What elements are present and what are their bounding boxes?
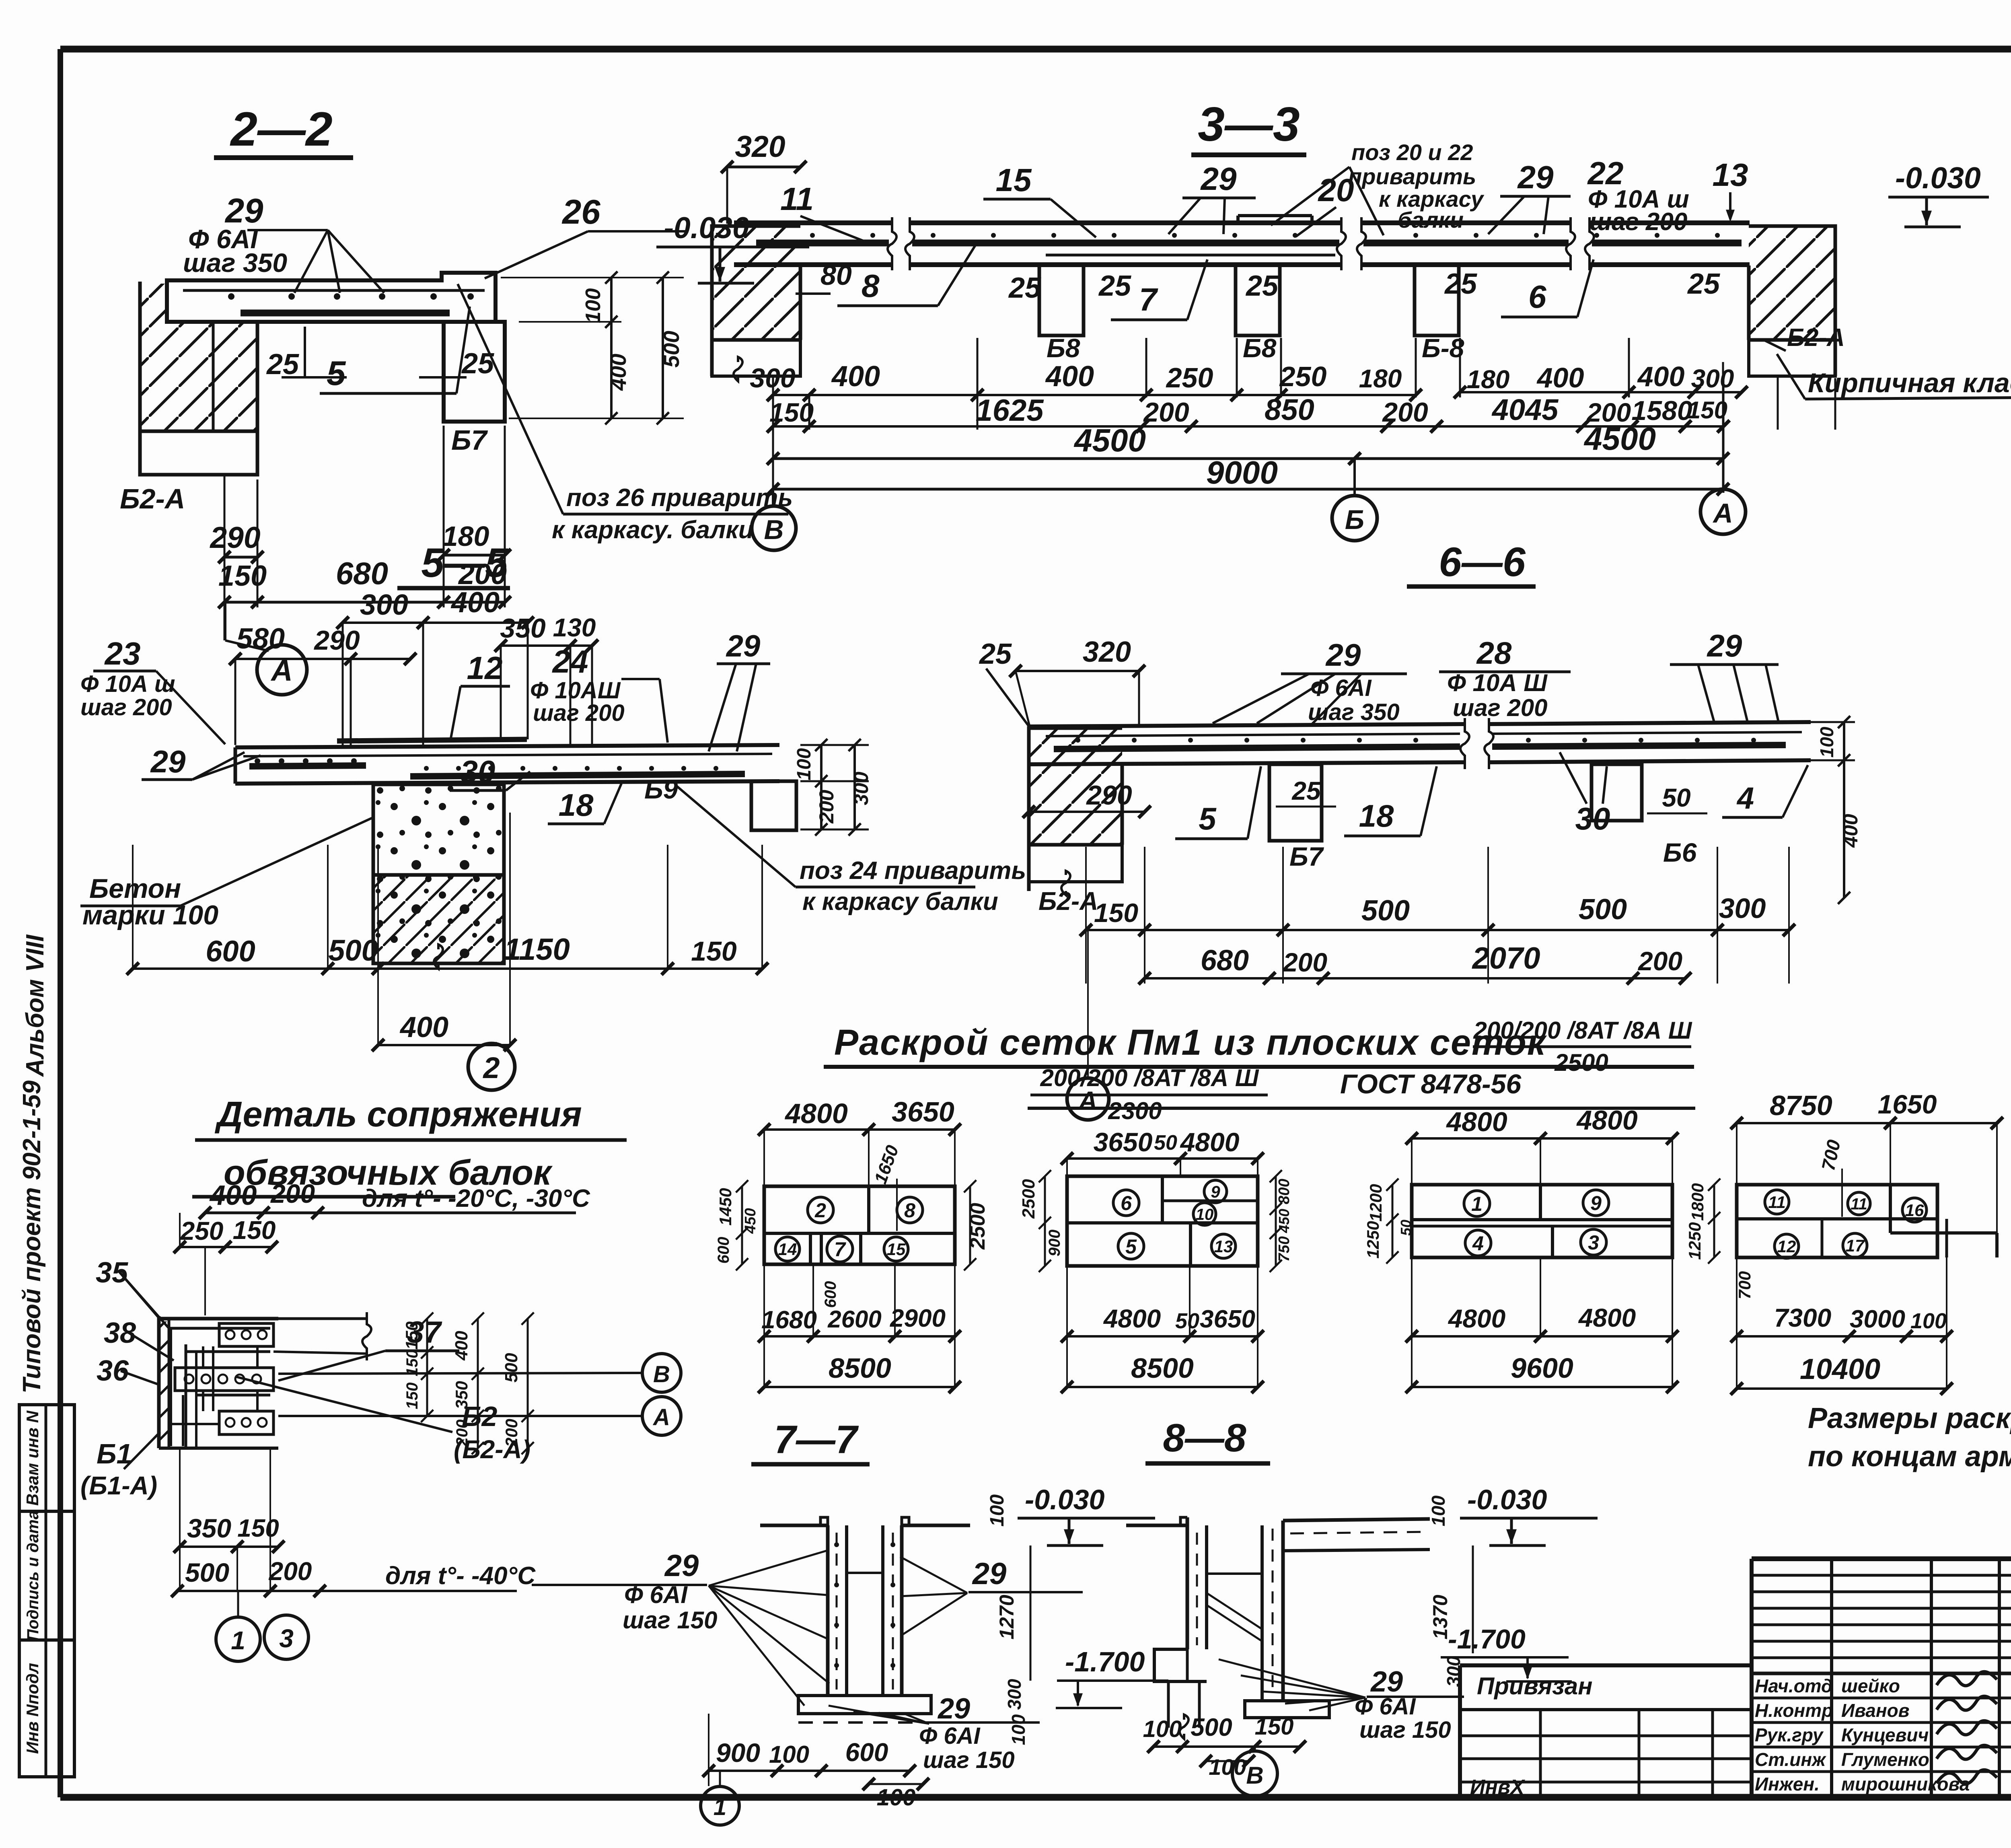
svg-text:Ф 6АI: Ф 6АI (1310, 675, 1372, 701)
svg-text:100: 100 (987, 1494, 1008, 1527)
svg-text:600: 600 (206, 934, 255, 968)
svg-text:700: 700 (1735, 1271, 1754, 1299)
svg-text:шаг 150: шаг 150 (623, 1607, 718, 1634)
svg-text:Б8: Б8 (1243, 333, 1277, 363)
svg-text:300: 300 (1004, 1679, 1025, 1710)
svg-text:11: 11 (1851, 1195, 1867, 1213)
svg-text:1: 1 (231, 1626, 245, 1655)
svg-text:Б2-А: Б2-А (1787, 324, 1845, 352)
svg-text:200: 200 (815, 790, 838, 824)
svg-text:-0.030: -0.030 (1467, 1484, 1547, 1515)
svg-text:7: 7 (1139, 282, 1158, 317)
svg-text:35: 35 (96, 1257, 128, 1289)
svg-text:8: 8 (904, 1199, 915, 1222)
svg-text:8: 8 (862, 268, 880, 304)
svg-text:25: 25 (1444, 268, 1477, 300)
svg-text:300: 300 (1443, 1656, 1464, 1687)
svg-text:5: 5 (1199, 801, 1217, 836)
svg-text:150: 150 (237, 1515, 279, 1542)
svg-text:7300: 7300 (1774, 1303, 1831, 1332)
svg-text:шаг 350: шаг 350 (183, 248, 287, 278)
svg-text:200/200 /8АТ /8А Ш: 200/200 /8АТ /8А Ш (1473, 1017, 1692, 1044)
svg-text:Ст.инж: Ст.инж (1755, 1749, 1826, 1770)
svg-text:400: 400 (831, 360, 880, 393)
svg-text:Кунцевич: Кунцевич (1841, 1725, 1929, 1745)
svg-text:Ф 10А Ш: Ф 10А Ш (1447, 669, 1548, 696)
svg-text:150: 150 (233, 1216, 276, 1245)
svg-text:Размеры раскроя арматурных: Размеры раскроя арматурных сеток приняты (1808, 1402, 2011, 1434)
svg-text:150: 150 (403, 1383, 421, 1410)
svg-text:ГОСТ 8478-56: ГОСТ 8478-56 (1340, 1069, 1522, 1099)
svg-text:14: 14 (778, 1240, 797, 1259)
svg-text:29: 29 (1200, 161, 1237, 197)
svg-text:8500: 8500 (1131, 1352, 1194, 1384)
svg-text:Б7: Б7 (451, 424, 488, 456)
svg-text:4: 4 (1736, 781, 1754, 815)
svg-text:17: 17 (1846, 1236, 1865, 1255)
svg-text:4045: 4045 (1491, 393, 1559, 426)
svg-text:400: 400 (209, 1179, 257, 1211)
svg-text:1250: 1250 (1363, 1221, 1382, 1258)
svg-text:марки 100: марки 100 (82, 900, 218, 930)
svg-text:Б8: Б8 (1047, 333, 1080, 363)
svg-text:29: 29 (937, 1693, 970, 1725)
svg-text:29: 29 (150, 744, 186, 779)
svg-text:350: 350 (500, 613, 546, 644)
svg-text:В: В (764, 514, 783, 545)
svg-text:мирошникова: мирошникова (1841, 1774, 1970, 1794)
svg-text:1150: 1150 (504, 932, 570, 967)
svg-text:Иванов: Иванов (1841, 1700, 1910, 1721)
svg-text:Глуменко: Глуменко (1841, 1749, 1929, 1770)
svg-text:200/200 /8АТ /8А Ш: 200/200 /8АТ /8А Ш (1040, 1064, 1259, 1091)
svg-text:1200: 1200 (1366, 1184, 1385, 1221)
svg-text:(Б2-А): (Б2-А) (454, 1435, 531, 1464)
svg-text:680: 680 (336, 556, 388, 591)
svg-text:В: В (1246, 1762, 1263, 1789)
svg-text:7: 7 (834, 1238, 846, 1261)
svg-text:290: 290 (1086, 780, 1132, 811)
svg-text:В: В (653, 1361, 670, 1387)
svg-text:Бетон: Бетон (89, 873, 181, 904)
svg-text:290: 290 (209, 521, 260, 554)
svg-text:150: 150 (403, 1350, 421, 1377)
svg-text:250: 250 (180, 1216, 224, 1245)
svg-text:9: 9 (1211, 1182, 1220, 1201)
svg-text:750: 750 (1276, 1236, 1293, 1261)
svg-text:А: А (1712, 498, 1733, 529)
svg-text:4500: 4500 (1583, 421, 1656, 457)
svg-text:Привязан: Привязан (1477, 1673, 1592, 1700)
svg-text:6—6: 6—6 (1439, 539, 1526, 585)
svg-text:3650: 3650 (1094, 1127, 1153, 1157)
svg-text:шаг 150: шаг 150 (923, 1747, 1015, 1773)
svg-text:3000: 3000 (1850, 1305, 1905, 1333)
svg-text:500: 500 (659, 331, 684, 368)
svg-text:2300: 2300 (1108, 1097, 1162, 1124)
svg-text:29: 29 (1517, 159, 1554, 195)
svg-text:Б9: Б9 (644, 774, 678, 804)
svg-text:1625: 1625 (975, 393, 1044, 428)
svg-text:2600: 2600 (827, 1306, 881, 1333)
svg-text:23: 23 (104, 636, 141, 671)
svg-text:балки: балки (1398, 207, 1464, 233)
svg-text:400: 400 (1536, 362, 1584, 393)
svg-text:4800: 4800 (784, 1098, 848, 1129)
svg-text:50: 50 (1398, 1220, 1414, 1236)
svg-text:5—5: 5—5 (421, 540, 508, 586)
svg-text:400: 400 (1839, 814, 1862, 848)
svg-text:50: 50 (1662, 783, 1690, 812)
svg-text:для t°- -20°C, -30°C: для t°- -20°C, -30°C (362, 1185, 590, 1212)
svg-text:2—2: 2—2 (230, 102, 332, 156)
svg-text:1250: 1250 (1685, 1222, 1704, 1259)
svg-text:25: 25 (1687, 268, 1720, 300)
svg-text:450: 450 (1276, 1209, 1292, 1233)
svg-text:2500: 2500 (1019, 1179, 1038, 1219)
svg-text:к каркасу балки: к каркасу балки (802, 888, 998, 916)
svg-text:580: 580 (236, 623, 285, 655)
svg-text:25: 25 (1245, 270, 1279, 302)
svg-text:Б7: Б7 (1289, 842, 1324, 871)
svg-text:3: 3 (279, 1624, 294, 1653)
svg-text:шаг 200: шаг 200 (1589, 208, 1687, 236)
svg-text:поз 20 и 22: поз 20 и 22 (1351, 140, 1473, 165)
svg-text:24: 24 (552, 644, 588, 679)
svg-text:12: 12 (1777, 1237, 1796, 1256)
svg-text:400: 400 (452, 1331, 471, 1361)
svg-text:500: 500 (1191, 1714, 1232, 1741)
svg-text:29: 29 (1370, 1666, 1403, 1698)
svg-text:300: 300 (360, 589, 408, 621)
svg-text:250: 250 (1279, 361, 1327, 392)
svg-text:100: 100 (769, 1741, 809, 1768)
svg-text:Инжен.: Инжен. (1755, 1774, 1820, 1794)
svg-text:400: 400 (1045, 360, 1094, 393)
svg-text:200: 200 (1282, 947, 1327, 977)
svg-text:1650: 1650 (1878, 1089, 1937, 1119)
svg-text:25: 25 (266, 348, 299, 381)
svg-text:-1.700: -1.700 (1448, 1624, 1526, 1655)
svg-text:Деталь сопряжения: Деталь сопряжения (214, 1094, 582, 1134)
svg-text:290: 290 (313, 625, 360, 656)
svg-text:3: 3 (1588, 1231, 1599, 1254)
svg-text:300: 300 (750, 363, 796, 393)
svg-text:шейко: шейко (1841, 1675, 1900, 1696)
svg-text:300: 300 (1719, 893, 1766, 924)
svg-text:1450: 1450 (716, 1188, 735, 1225)
svg-text:3650: 3650 (892, 1096, 954, 1128)
svg-text:2900: 2900 (890, 1305, 946, 1332)
svg-text:9: 9 (1590, 1192, 1602, 1214)
svg-text:150: 150 (1094, 898, 1138, 928)
svg-text:13: 13 (1214, 1237, 1233, 1256)
svg-text:Взам инв N: Взам инв N (23, 1410, 42, 1506)
svg-text:Альбом VIII: Альбом VIII (21, 934, 49, 1077)
svg-text:350: 350 (187, 1513, 231, 1543)
svg-text:450: 450 (742, 1208, 759, 1234)
svg-text:16: 16 (1905, 1201, 1924, 1220)
svg-text:3650: 3650 (1200, 1305, 1255, 1333)
svg-text:поз 26 приварить: поз 26 приварить (566, 484, 793, 512)
svg-text:-0.030: -0.030 (1895, 161, 1981, 195)
svg-text:15: 15 (887, 1240, 906, 1259)
svg-text:Б2: Б2 (462, 1401, 498, 1432)
svg-text:ИнвХ: ИнвХ (1470, 1776, 1526, 1799)
svg-text:7—7: 7—7 (774, 1417, 859, 1461)
svg-text:11: 11 (780, 181, 814, 217)
svg-text:600: 600 (715, 1237, 732, 1264)
svg-text:500: 500 (1579, 893, 1627, 926)
svg-text:2: 2 (482, 1051, 500, 1085)
svg-text:Б2-А: Б2-А (1038, 887, 1098, 916)
svg-text:250: 250 (1166, 362, 1213, 393)
svg-text:8750: 8750 (1770, 1090, 1832, 1121)
svg-text:5: 5 (327, 354, 346, 393)
svg-text:4500: 4500 (1073, 422, 1146, 458)
svg-text:к каркасу. балки: к каркасу. балки (552, 516, 754, 544)
svg-text:400: 400 (606, 354, 631, 391)
svg-text:Раскрой сеток Пм1 из плоских с: Раскрой сеток Пм1 из плоских сеток (834, 1023, 1547, 1063)
svg-text:150: 150 (691, 936, 737, 967)
svg-text:800: 800 (1276, 1179, 1293, 1204)
svg-text:26: 26 (561, 193, 600, 231)
svg-text:25: 25 (979, 638, 1012, 670)
svg-text:850: 850 (1265, 393, 1314, 426)
svg-text:100: 100 (1816, 726, 1837, 757)
svg-text:10: 10 (1196, 1206, 1214, 1223)
svg-text:Н.контр: Н.контр (1755, 1700, 1833, 1721)
svg-text:4800: 4800 (1103, 1304, 1161, 1333)
svg-text:6: 6 (1121, 1192, 1132, 1214)
svg-text:320: 320 (735, 130, 785, 163)
svg-text:4800: 4800 (1578, 1303, 1636, 1332)
svg-text:Нач.отд: Нач.отд (1755, 1675, 1832, 1696)
svg-text:10400: 10400 (1800, 1353, 1880, 1385)
svg-text:680: 680 (1201, 945, 1249, 977)
svg-text:Б-8: Б-8 (1422, 333, 1464, 363)
svg-text:2070: 2070 (1471, 941, 1540, 975)
svg-text:29: 29 (1707, 628, 1742, 663)
svg-text:400: 400 (1637, 361, 1685, 392)
svg-text:4: 4 (1472, 1232, 1484, 1255)
svg-text:5: 5 (1125, 1235, 1137, 1258)
svg-text:(Б1-А): (Б1-А) (80, 1471, 157, 1500)
svg-text:300: 300 (850, 772, 872, 805)
svg-text:4800: 4800 (1576, 1105, 1637, 1136)
svg-text:28: 28 (1476, 635, 1512, 671)
svg-text:500: 500 (328, 934, 378, 967)
svg-text:2500: 2500 (966, 1203, 989, 1250)
svg-text:15: 15 (996, 162, 1032, 198)
svg-text:900: 900 (716, 1738, 760, 1768)
svg-text:Инв Nподл: Инв Nподл (23, 1663, 42, 1754)
svg-text:150: 150 (1687, 397, 1727, 424)
svg-text:8—8: 8—8 (1163, 1416, 1246, 1460)
svg-text:200: 200 (269, 1557, 312, 1586)
svg-text:6: 6 (1528, 279, 1546, 315)
svg-text:29: 29 (1325, 637, 1361, 673)
svg-text:30: 30 (461, 754, 496, 789)
svg-text:Б2-А: Б2-А (120, 483, 185, 514)
svg-text:1800: 1800 (1688, 1183, 1707, 1220)
svg-text:4800: 4800 (1448, 1304, 1505, 1333)
svg-text:150: 150 (402, 1321, 421, 1350)
svg-text:50: 50 (1175, 1309, 1199, 1333)
svg-text:2: 2 (814, 1199, 826, 1222)
svg-text:30: 30 (1575, 801, 1610, 836)
svg-text:шаг 350: шаг 350 (1308, 699, 1400, 725)
svg-text:320: 320 (1083, 636, 1131, 668)
svg-text:600: 600 (845, 1738, 888, 1767)
svg-text:Кирпичная кладка: Кирпичная кладка (1808, 368, 2011, 398)
svg-text:3—3: 3—3 (1198, 97, 1300, 151)
svg-text:100: 100 (794, 748, 815, 780)
svg-text:180: 180 (1359, 364, 1402, 393)
svg-text:500: 500 (185, 1558, 229, 1587)
svg-text:Б: Б (1345, 504, 1364, 535)
svg-text:1270: 1270 (995, 1595, 1018, 1639)
svg-text:100: 100 (1008, 1714, 1029, 1745)
svg-text:шаг 200: шаг 200 (533, 700, 625, 726)
svg-text:поз 24 приварить: поз 24 приварить (800, 857, 1026, 885)
svg-text:100: 100 (582, 288, 605, 323)
svg-text:для t°- -40°C: для t°- -40°C (385, 1562, 536, 1590)
svg-text:500: 500 (502, 1353, 521, 1383)
svg-text:50: 50 (1154, 1131, 1177, 1154)
svg-text:11: 11 (1768, 1193, 1786, 1212)
svg-text:шаг 200: шаг 200 (80, 694, 172, 720)
svg-text:12: 12 (467, 650, 503, 686)
svg-text:29: 29 (972, 1557, 1007, 1591)
svg-text:приварить: приварить (1348, 164, 1476, 189)
svg-text:9000: 9000 (1206, 455, 1278, 490)
svg-text:Типовой проект 902-1-59: Типовой проект 902-1-59 (18, 1080, 46, 1393)
svg-text:Б6: Б6 (1663, 838, 1697, 867)
svg-text:-0.030: -0.030 (1025, 1484, 1105, 1515)
svg-text:18: 18 (1359, 798, 1394, 833)
svg-text:1: 1 (714, 1794, 726, 1820)
svg-text:100: 100 (877, 1784, 916, 1811)
svg-text:-1.700: -1.700 (1065, 1646, 1145, 1677)
svg-text:29: 29 (664, 1549, 699, 1583)
svg-text:200: 200 (270, 1179, 315, 1208)
svg-text:80: 80 (820, 259, 852, 291)
svg-text:шаг 200: шаг 200 (1453, 694, 1548, 721)
svg-text:500: 500 (1361, 895, 1410, 927)
svg-text:100: 100 (1143, 1716, 1182, 1742)
svg-text:900: 900 (1046, 1230, 1063, 1257)
svg-text:18: 18 (559, 787, 594, 823)
svg-text:25: 25 (1098, 270, 1131, 302)
svg-text:600: 600 (822, 1281, 839, 1308)
svg-text:200: 200 (1637, 946, 1682, 976)
svg-text:25: 25 (1291, 776, 1321, 805)
svg-text:шаг 150: шаг 150 (1359, 1717, 1451, 1743)
svg-text:по концам арматурных стержне: по концам арматурных стержней (1808, 1441, 2011, 1473)
svg-text:180: 180 (1467, 365, 1510, 394)
svg-text:4800: 4800 (1180, 1127, 1240, 1157)
svg-text:100: 100 (1428, 1495, 1449, 1526)
svg-text:8500: 8500 (829, 1352, 891, 1384)
svg-text:29: 29 (726, 629, 761, 663)
svg-text:400: 400 (450, 587, 500, 619)
svg-text:200: 200 (1143, 397, 1189, 428)
svg-text:А: А (652, 1404, 670, 1430)
svg-text:2500: 2500 (1554, 1049, 1608, 1076)
svg-text:150: 150 (1255, 1714, 1294, 1740)
svg-text:4800: 4800 (1446, 1107, 1507, 1137)
svg-text:Рук.гру: Рук.гру (1755, 1725, 1824, 1745)
svg-text:25: 25 (1008, 272, 1041, 304)
svg-text:Ф 6АI: Ф 6АI (919, 1723, 981, 1749)
svg-text:400: 400 (399, 1011, 448, 1043)
svg-text:130: 130 (553, 613, 596, 642)
svg-text:100: 100 (1910, 1309, 1947, 1333)
svg-text:13: 13 (1713, 157, 1748, 193)
svg-text:1: 1 (1471, 1193, 1483, 1215)
svg-text:9600: 9600 (1511, 1352, 1573, 1384)
svg-text:Подпись и дата: Подпись и дата (24, 1511, 42, 1641)
svg-text:150: 150 (218, 560, 267, 592)
